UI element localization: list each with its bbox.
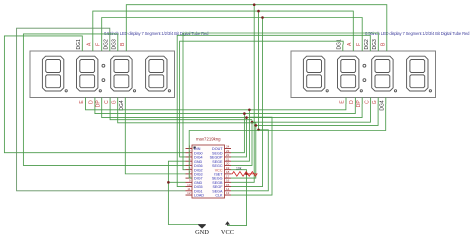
- op-amp U1 max7219kng body: [192, 145, 225, 198]
- junction net SEG_D: [243, 112, 246, 115]
- svg-text:B: B: [120, 42, 126, 46]
- pin B (top) of DS2: [381, 42, 387, 51]
- svg-text:0.56inch LED display 7 Segment: 0.56inch LED display 7 Segment 1/2/3/4 B…: [365, 31, 470, 36]
- pin F (top) of DS1: [95, 43, 101, 51]
- junction net SEG_C: [251, 121, 254, 124]
- wire net DIG3 (DS1 DG4): [125, 104, 185, 174]
- pin DG3 (top) of DS2: [372, 39, 378, 51]
- resistor R1 (ISET): [231, 167, 257, 177]
- svg-text:C: C: [104, 100, 110, 104]
- junction net GND: [167, 181, 170, 184]
- ground symbol: [195, 225, 209, 237]
- junction net SEG_A lower: [257, 129, 260, 132]
- pin 14 SEGA of U1: [212, 187, 231, 193]
- pin 23 SEGD of U1: [212, 149, 231, 155]
- pin 11 DIG1 of U1: [186, 187, 203, 193]
- wire net SEG_A top run: [93, 11, 354, 44]
- pin 7 DIG3 of U1: [186, 170, 203, 176]
- pin 12 LOAD of U1: [186, 191, 205, 197]
- wire net SEG_G drop to U1: [231, 123, 256, 178]
- wire net SEG_E left run: [86, 104, 250, 110]
- LED display DS2 body: [291, 51, 436, 98]
- pin G (bottom) of DS1: [111, 98, 117, 105]
- pin 19 VCC of U1: [215, 166, 231, 172]
- pin G (bottom) of DS2: [372, 98, 378, 105]
- svg-text:DP: DP: [356, 100, 362, 108]
- pin 2 DIG0 of U1: [186, 149, 203, 155]
- wire net DIG4 (DS2 DG1): [180, 41, 344, 157]
- svg-text:E: E: [79, 100, 85, 104]
- pin 13 CLK of U1: [215, 191, 231, 197]
- svg-text:12: 12: [187, 191, 191, 195]
- pin DP (bottom) of DS2: [356, 98, 362, 108]
- svg-text:VCC: VCC: [221, 229, 234, 236]
- svg-text:DG3: DG3: [112, 39, 118, 50]
- svg-text:D: D: [89, 100, 95, 104]
- svg-text:F: F: [95, 43, 101, 46]
- pin 5 DIG6 of U1: [186, 162, 203, 168]
- pin 9 GND of U1: [186, 179, 203, 185]
- wire net SEG_F top run: [102, 18, 363, 45]
- svg-text:DG2: DG2: [104, 39, 110, 50]
- pin 4 GND of U1: [186, 157, 203, 163]
- svg-text:max7219kng: max7219kng: [196, 137, 221, 142]
- junction net SEG_DP: [245, 116, 248, 119]
- wire net DIG2 (DS2 DG3): [183, 33, 378, 170]
- pin E (bottom) of DS1: [79, 98, 85, 105]
- pin 17 SEGG of U1: [212, 174, 231, 180]
- svg-text:DG2: DG2: [364, 39, 370, 50]
- svg-text:CLK: CLK: [215, 194, 223, 198]
- pin DG2 (top) of DS2: [364, 39, 370, 51]
- wire net SEG_DP drop to U1: [231, 118, 247, 157]
- junction net SEG_B: [253, 3, 256, 6]
- wire net CLK: [231, 117, 272, 195]
- svg-text:A: A: [347, 42, 353, 46]
- colon dots: [363, 64, 366, 81]
- wire net SEG_E drop to U1: [231, 110, 249, 161]
- wire net SEG_C drop to U1: [231, 120, 252, 166]
- pin DG1 (top) of DS1: [76, 39, 82, 51]
- svg-text:G: G: [372, 100, 378, 104]
- svg-text:DG4: DG4: [119, 100, 125, 111]
- svg-text:G: G: [111, 100, 117, 104]
- wire net SEG_G right run: [256, 104, 378, 125]
- svg-text:DP: DP: [95, 100, 101, 108]
- wire net DIG1 (DS1 DG2): [17, 28, 186, 191]
- wire net SEG_C left run: [110, 104, 252, 120]
- pin 1 DIN of U1: [186, 145, 201, 151]
- svg-text:C: C: [364, 100, 370, 104]
- pin 18 ISET of U1: [214, 170, 231, 176]
- pin 15 SEGF of U1: [212, 183, 231, 189]
- pin 10 DIG5 of U1: [186, 183, 203, 189]
- pin 24 DOUT of U1: [212, 145, 231, 151]
- pin 6 DIG2 of U1: [186, 166, 203, 172]
- svg-text:LOAD: LOAD: [194, 194, 204, 198]
- pin D (bottom) of DS2: [349, 98, 355, 105]
- wire net SEG_F drop to U1: [231, 18, 263, 187]
- power flag VCC: [221, 221, 234, 236]
- wire net SEG_DP left run: [102, 104, 247, 118]
- wire net DIG5 (DS2 DG2): [177, 35, 370, 186]
- pin DG2 (top) of DS1: [104, 39, 110, 51]
- svg-text:A: A: [87, 42, 93, 46]
- wire net GND stub pin9: [168, 181, 185, 183]
- wire net SEG_D drop to U1: [231, 114, 244, 153]
- wire net SEG_G left run: [118, 104, 256, 123]
- svg-text:E: E: [340, 100, 346, 104]
- svg-text:DG3: DG3: [372, 39, 378, 50]
- junction net VCC / R1: [245, 173, 248, 176]
- wire net VCC: [228, 170, 247, 226]
- pin DP (bottom) of DS1: [95, 98, 101, 108]
- wire net SEG_C right run: [252, 104, 371, 122]
- junction net SEG_F: [261, 16, 264, 19]
- junction net SEG_E: [248, 109, 251, 112]
- wire net SEG_A drop to U1: [231, 11, 268, 191]
- pin 8 DIG7 of U1: [186, 174, 203, 180]
- pin DG3 (top) of DS1: [112, 39, 118, 51]
- pin A (top) of DS1: [87, 42, 93, 51]
- wire net DIG7 (DS2 DG4): [189, 104, 386, 178]
- wire net SEG_DP right run: [247, 104, 363, 118]
- wire net SEG_B top run: [126, 5, 387, 45]
- pin 20 SEGC of U1: [212, 162, 231, 168]
- wire net GND: [168, 161, 199, 224]
- svg-text:10k: 10k: [236, 167, 242, 171]
- svg-text:B: B: [381, 42, 387, 46]
- colon dots: [102, 64, 105, 81]
- pin F (top) of DS2: [356, 43, 362, 51]
- wire net DIG6 (DS1 DG3): [23, 34, 185, 166]
- wire net SEG_B drop to U1: [231, 5, 254, 183]
- svg-text:F: F: [356, 43, 362, 46]
- svg-text:DG1: DG1: [337, 39, 343, 50]
- pin D (bottom) of DS1: [89, 98, 95, 105]
- wire net DIG0 (DS1 DG1): [4, 36, 185, 153]
- pin A (top) of DS2: [347, 42, 353, 51]
- pin C (bottom) of DS1: [104, 98, 110, 105]
- pin DG4 (bottom) of DS1: [119, 98, 125, 111]
- pin C (bottom) of DS2: [364, 98, 370, 105]
- svg-text:DG1: DG1: [76, 39, 82, 50]
- pin DG1 (top) of DS2: [337, 39, 343, 51]
- svg-text:DG4: DG4: [380, 100, 386, 111]
- LED display DS1 body: [30, 51, 175, 98]
- pin 3 DIG4 of U1: [186, 153, 203, 159]
- wire net SEG_D right run: [244, 104, 355, 114]
- pin B (top) of DS1: [120, 42, 126, 51]
- pin DG4 (bottom) of DS2: [380, 98, 386, 111]
- svg-text:13: 13: [226, 191, 230, 195]
- pin 16 SEGB of U1: [212, 179, 231, 185]
- wire net SEG_D left run: [95, 104, 245, 114]
- pin 22 SEGDP of U1: [210, 153, 231, 159]
- svg-text:D: D: [349, 100, 355, 104]
- junction net SEG_A: [257, 10, 260, 13]
- pin E (bottom) of DS2: [340, 98, 346, 105]
- pin 21 SEGE of U1: [212, 157, 231, 163]
- wire net SEG_E right run: [249, 104, 346, 110]
- svg-text:GND: GND: [195, 229, 209, 236]
- junction net SEG_G: [255, 124, 258, 127]
